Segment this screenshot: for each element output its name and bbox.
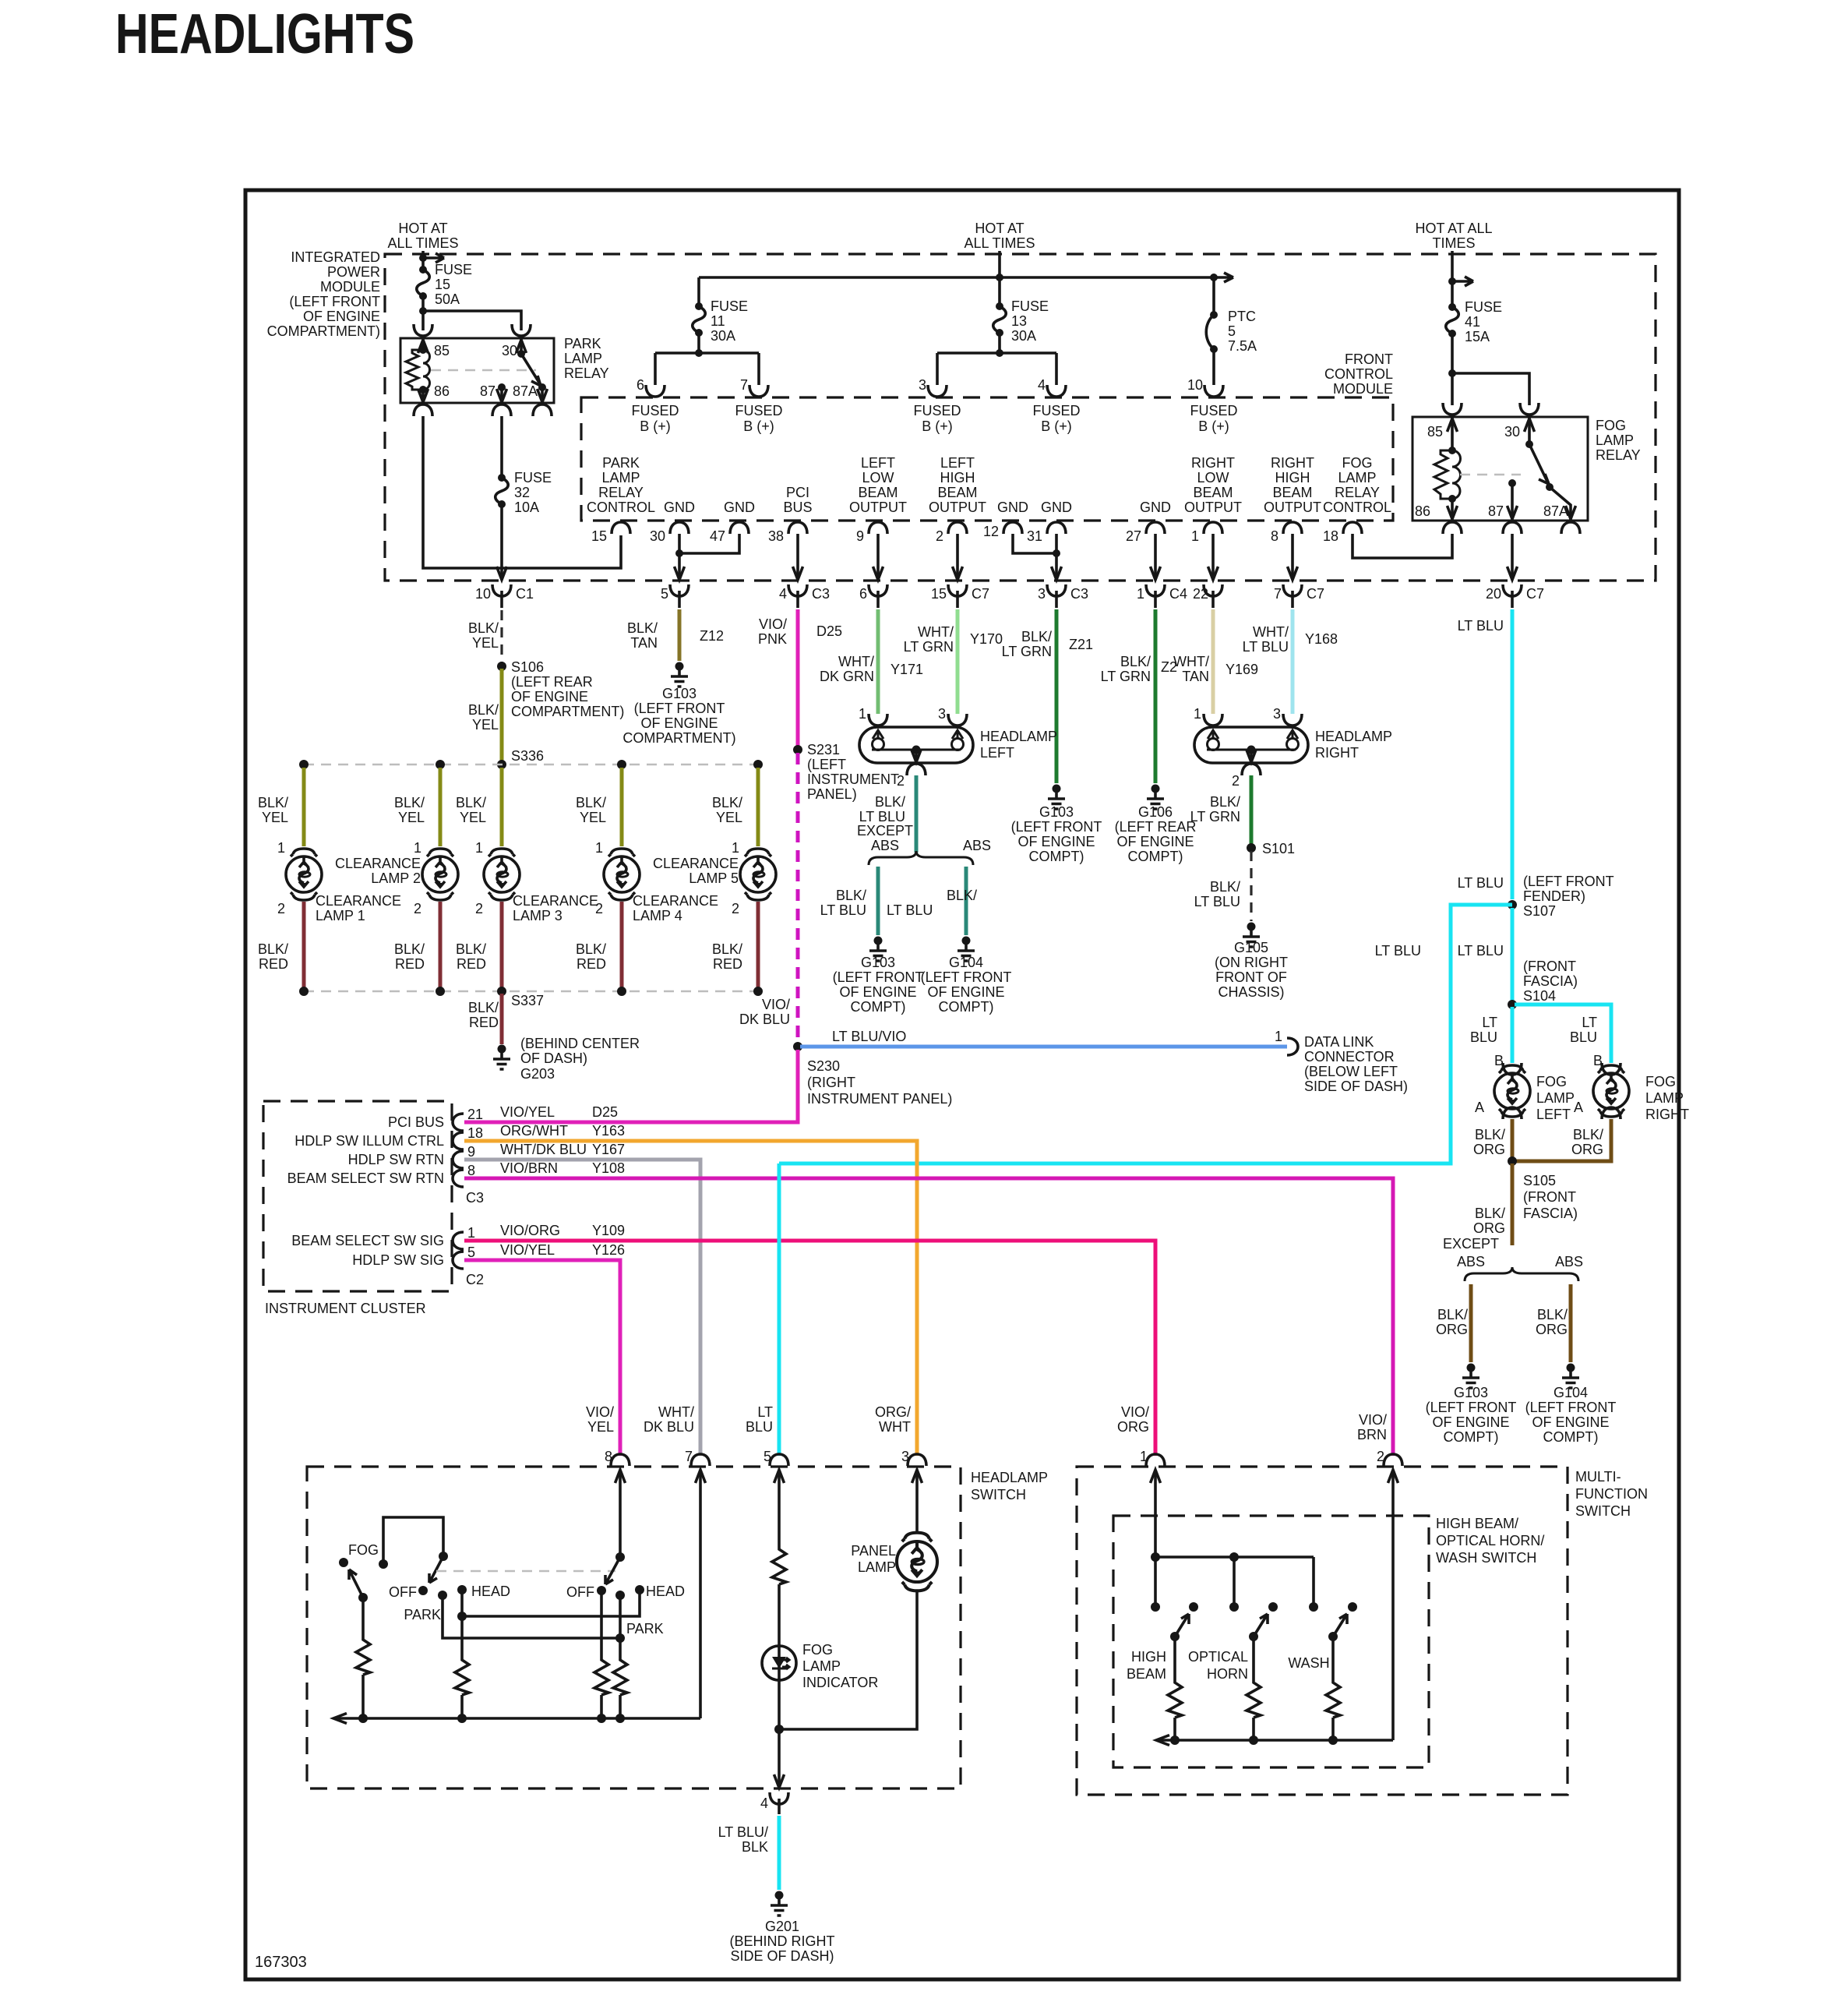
svg-text:FUSED: FUSED [735, 403, 782, 418]
IPM connector C4 pin 1 [1146, 584, 1165, 596]
svg-text:11: 11 [711, 313, 725, 329]
svg-text:Y109: Y109 [592, 1223, 625, 1238]
svg-text:S106: S106 [511, 659, 544, 675]
svg-text:LT BLU: LT BLU [887, 902, 933, 918]
wire BLK/YEL to clearance lamp 5 [756, 768, 760, 846]
FCM pin 30 [670, 522, 689, 534]
IPM connector pin 22 [1204, 584, 1222, 596]
svg-text:VIO/YEL: VIO/YEL [500, 1242, 555, 1258]
wire bus down to fuse11 [697, 277, 700, 305]
svg-text:C4: C4 [1169, 586, 1187, 602]
svg-text:ALL TIMES: ALL TIMES [964, 235, 1035, 251]
park lamp relay box [400, 338, 554, 403]
svg-text:2: 2 [475, 901, 483, 916]
svg-text:1: 1 [595, 840, 603, 856]
svg-text:COMPT): COMPT) [1543, 1429, 1599, 1445]
resistor head branch pole1 [455, 1658, 469, 1695]
svg-text:(ON RIGHT: (ON RIGHT [1215, 955, 1288, 970]
svg-text:BLK/: BLK/ [468, 702, 499, 718]
wire BLK/LT GRN Z21 to ground [1055, 609, 1059, 783]
svg-text:1: 1 [1137, 586, 1144, 602]
wire BLK/RED below clearance lamp 5 [756, 902, 760, 989]
fuse F15 50A [417, 266, 430, 300]
svg-text:PANEL): PANEL) [807, 786, 857, 802]
svg-text:32: 32 [514, 485, 530, 500]
svg-text:5: 5 [661, 586, 668, 602]
svg-text:SIDE OF DASH): SIDE OF DASH) [730, 1948, 834, 1964]
fog lamp left [1494, 1065, 1530, 1117]
svg-text:21: 21 [467, 1107, 483, 1122]
high beam switch [1151, 1602, 1160, 1612]
wire PTC to pin 10 [1212, 352, 1215, 385]
svg-text:DK BLU: DK BLU [739, 1012, 790, 1027]
svg-text:BLK/: BLK/ [456, 941, 486, 957]
svg-text:FUSED: FUSED [1032, 403, 1080, 418]
drawing border frame [245, 190, 1679, 1979]
svg-text:(BEHIND CENTER: (BEHIND CENTER [520, 1036, 640, 1051]
svg-text:HEADLAMP: HEADLAMP [971, 1470, 1048, 1485]
panel lamp resistor wire / lamp [897, 1533, 937, 1591]
svg-text:COMPT): COMPT) [939, 999, 994, 1015]
svg-text:GND: GND [997, 500, 1028, 515]
optical horn switch [1229, 1602, 1239, 1612]
svg-text:5: 5 [1228, 323, 1236, 339]
svg-text:(LEFT FRONT: (LEFT FRONT [289, 294, 380, 309]
FCM pin 6 [646, 385, 665, 397]
svg-text:S231: S231 [807, 742, 840, 757]
svg-text:RED: RED [577, 956, 606, 972]
IPM connector C3 pin 3 [1047, 584, 1066, 596]
ground G104 (fog) [1562, 1364, 1579, 1389]
svg-text:VIO/: VIO/ [762, 997, 790, 1012]
svg-text:COMPARTMENT): COMPARTMENT) [267, 323, 380, 339]
svg-text:(LEFT FRONT: (LEFT FRONT [833, 969, 924, 985]
svg-text:D25: D25 [816, 623, 842, 639]
svg-text:EXCEPT: EXCEPT [1443, 1236, 1499, 1252]
svg-text:S107: S107 [1523, 903, 1556, 919]
svg-text:2: 2 [414, 901, 421, 916]
clearance lamp 2 [422, 849, 458, 900]
wire ORG/WHT to headlamp switch 3 [464, 1141, 917, 1456]
svg-text:G103: G103 [1039, 804, 1074, 820]
svg-text:OF ENGINE: OF ENGINE [303, 309, 380, 324]
svg-text:LAMP 1: LAMP 1 [316, 908, 365, 923]
svg-text:(RIGHT: (RIGHT [807, 1075, 855, 1090]
svg-text:HEADLAMP: HEADLAMP [1315, 729, 1392, 744]
svg-text:C2: C2 [466, 1272, 484, 1287]
svg-text:FUSED: FUSED [631, 403, 679, 418]
svg-text:Z12: Z12 [700, 628, 724, 644]
svg-text:S230: S230 [807, 1058, 840, 1074]
wire BLK/RED below clearance lamp 2 [439, 902, 443, 989]
svg-text:YEL: YEL [472, 635, 499, 651]
svg-text:DATA LINK: DATA LINK [1304, 1034, 1374, 1050]
wire BLK/ORG fog right to S105 [1515, 1119, 1611, 1161]
svg-text:Y170: Y170 [970, 631, 1003, 647]
svg-text:FUNCTION: FUNCTION [1575, 1486, 1648, 1502]
resistor fog branch [361, 1598, 365, 1637]
svg-text:OUTPUT: OUTPUT [1184, 500, 1242, 515]
svg-text:OF ENGINE: OF ENGINE [1116, 834, 1194, 849]
svg-text:BLK/: BLK/ [1573, 1127, 1603, 1142]
svg-text:MODULE: MODULE [320, 279, 380, 295]
svg-text:1: 1 [414, 840, 421, 856]
svg-text:LAMP 2: LAMP 2 [371, 870, 421, 886]
svg-text:ORG: ORG [1117, 1419, 1149, 1435]
clearance lamp 5 [740, 849, 776, 900]
instrument cluster dashed box [263, 1101, 452, 1291]
svg-text:COMPARTMENT): COMPARTMENT) [511, 704, 624, 719]
fog relay pin 86 [1451, 499, 1454, 521]
ground G103 (fog) [1462, 1364, 1479, 1389]
svg-text:ORG: ORG [1473, 1142, 1505, 1157]
svg-text:TIMES: TIMES [1432, 235, 1475, 251]
svg-text:LT BLU: LT BLU [1458, 875, 1504, 891]
wire WHT/TAN to headlamp right 1 [1211, 609, 1215, 714]
svg-text:INSTRUMENT: INSTRUMENT [807, 772, 899, 787]
svg-text:87A: 87A [513, 383, 538, 399]
svg-text:(LEFT REAR: (LEFT REAR [1115, 819, 1197, 835]
svg-text:87: 87 [1488, 503, 1504, 519]
svg-text:PARK: PARK [626, 1621, 664, 1637]
svg-text:OFF: OFF [566, 1584, 594, 1600]
ground G103 (headlamp left) [869, 937, 887, 962]
FCM pin 27 [1146, 522, 1165, 534]
svg-text:WHT/: WHT/ [1253, 624, 1289, 640]
svg-text:OPTICAL: OPTICAL [1188, 1649, 1248, 1665]
svg-text:HEADLAMP: HEADLAMP [980, 729, 1057, 744]
wire LT BLU S104 to fog lamp right [1515, 1005, 1611, 1063]
svg-text:LT BLU: LT BLU [1458, 943, 1504, 959]
FCM pin 12 [1003, 522, 1022, 534]
svg-text:LT BLU: LT BLU [1375, 943, 1421, 959]
svg-text:15: 15 [931, 586, 947, 602]
svg-text:POWER: POWER [327, 264, 380, 280]
svg-text:OF ENGINE: OF ENGINE [927, 984, 1004, 1000]
svg-text:4: 4 [1038, 377, 1046, 393]
svg-text:G106: G106 [1138, 804, 1173, 820]
ground G203 [493, 1045, 510, 1070]
svg-text:LAMP: LAMP [564, 351, 602, 366]
svg-text:BLU: BLU [1570, 1029, 1597, 1045]
svg-text:HIGH: HIGH [1131, 1649, 1166, 1665]
svg-text:YEL: YEL [460, 810, 486, 825]
svg-text:CLEARANCE: CLEARANCE [633, 893, 718, 909]
svg-text:RED: RED [469, 1015, 499, 1030]
relay pin 86 [421, 390, 425, 403]
svg-text:Y169: Y169 [1226, 662, 1258, 677]
wire BLK/YEL to clearance lamp 4 [620, 768, 624, 846]
clearance lamp 3 [484, 849, 520, 900]
svg-text:G103: G103 [861, 955, 895, 970]
svg-text:G201: G201 [765, 1919, 799, 1934]
svg-text:B (+): B (+) [1041, 418, 1072, 434]
svg-text:9: 9 [856, 528, 864, 544]
svg-text:SIDE OF DASH): SIDE OF DASH) [1304, 1079, 1408, 1094]
svg-text:GND: GND [1041, 500, 1072, 515]
mfs return bus [1158, 1739, 1393, 1742]
svg-text:LT GRN: LT GRN [1002, 644, 1052, 659]
svg-text:INDICATOR: INDICATOR [802, 1675, 878, 1690]
svg-text:OF ENGINE: OF ENGINE [1532, 1414, 1609, 1430]
svg-text:S105: S105 [1523, 1173, 1556, 1188]
wire relay86 to FCM pin15 [423, 416, 621, 568]
FCM pin 4 [1047, 385, 1066, 397]
svg-text:Y167: Y167 [592, 1142, 625, 1157]
IPM connector pin 6 [869, 584, 887, 596]
svg-text:LAMP 4: LAMP 4 [633, 908, 682, 923]
svg-text:COMPT): COMPT) [1444, 1429, 1499, 1445]
svg-text:1: 1 [467, 1225, 475, 1241]
head contact pole2 [635, 1585, 644, 1594]
svg-text:OUTPUT: OUTPUT [849, 500, 907, 515]
svg-text:(FRONT: (FRONT [1523, 959, 1576, 974]
wire bus to PTC [1212, 277, 1215, 315]
svg-text:20: 20 [1486, 586, 1501, 602]
fog lamp indicator resistor [772, 1547, 786, 1584]
svg-text:BEAM SELECT SW SIG: BEAM SELECT SW SIG [291, 1233, 444, 1248]
svg-text:YEL: YEL [580, 810, 606, 825]
svg-text:1: 1 [277, 840, 285, 856]
svg-text:87A: 87A [1543, 503, 1568, 519]
FCM pin 2 [948, 522, 967, 534]
wire gnd30 gnd47 join [679, 534, 739, 578]
svg-text:CONTROL: CONTROL [1324, 366, 1393, 382]
svg-text:INSTRUMENT PANEL): INSTRUMENT PANEL) [807, 1091, 952, 1107]
wire fog relay 86 to FCM pin 18 [1352, 534, 1452, 558]
svg-text:BUS: BUS [783, 500, 812, 515]
svg-text:CHASSIS): CHASSIS) [1218, 984, 1284, 1000]
svg-text:B (+): B (+) [640, 418, 671, 434]
svg-text:A: A [1475, 1100, 1484, 1115]
pole1 blade from pivot [429, 1556, 443, 1583]
svg-text:15A: 15A [1465, 329, 1490, 344]
svg-text:OF DASH): OF DASH) [520, 1050, 587, 1066]
svg-text:2: 2 [277, 901, 285, 916]
svg-text:1: 1 [1275, 1029, 1282, 1044]
svg-text:10A: 10A [514, 500, 539, 515]
headlamp right housing [1194, 727, 1308, 763]
wire fuse15 to relay [423, 296, 521, 330]
svg-text:BLK/: BLK/ [1210, 879, 1240, 895]
wire BLK/RED below clearance lamp 4 [620, 902, 624, 989]
fuse F32 10A [496, 474, 509, 508]
wire BLK/LT BLU abs branch [965, 867, 968, 935]
svg-text:RELAY: RELAY [598, 485, 644, 500]
ground G106 [1147, 785, 1164, 810]
svg-text:1: 1 [1194, 706, 1201, 722]
svg-text:ORG: ORG [1436, 1322, 1468, 1337]
fog rotary link [383, 1517, 443, 1562]
svg-text:Y171: Y171 [890, 662, 923, 677]
svg-text:OF ENGINE: OF ENGINE [1432, 1414, 1509, 1430]
svg-text:BLK: BLK [742, 1839, 768, 1855]
connector cups above park lamp relay [414, 324, 432, 336]
fog relay pin 85 [1451, 417, 1454, 450]
svg-text:HDLP SW RTN: HDLP SW RTN [348, 1152, 444, 1167]
svg-text:FRONT OF: FRONT OF [1215, 969, 1287, 985]
svg-text:OUTPUT: OUTPUT [929, 500, 986, 515]
svg-text:8: 8 [1271, 528, 1278, 544]
splice S337 [497, 987, 506, 996]
fog lamp relay box [1412, 417, 1588, 521]
svg-text:SWITCH: SWITCH [1575, 1503, 1631, 1519]
wire VIO/YEL to headlamp switch 8 [464, 1260, 620, 1456]
svg-text:15: 15 [435, 277, 450, 292]
svg-text:RELAY: RELAY [1335, 485, 1380, 500]
svg-text:BLK/: BLK/ [468, 1000, 499, 1015]
wire BLK/YEL S106 to S336 [500, 669, 504, 762]
svg-text:Y108: Y108 [592, 1160, 625, 1176]
IPM connector C1 pin 10 [492, 584, 511, 596]
pole2 pivot [615, 1552, 625, 1562]
PTC 5 7.5A [1210, 311, 1218, 319]
svg-text:C3: C3 [1070, 586, 1088, 602]
wire BLK/ORG abs to G104 [1569, 1284, 1573, 1362]
svg-text:D25: D25 [592, 1104, 618, 1120]
svg-text:BLK/: BLK/ [258, 941, 288, 957]
wire LT BLU down to headlamp switch 5 [778, 1163, 781, 1456]
svg-text:C3: C3 [812, 586, 830, 602]
fuse F41 15A [1446, 303, 1459, 337]
svg-text:CONTROL: CONTROL [1323, 500, 1391, 515]
mechanical link headlamp switch [436, 1570, 615, 1573]
svg-text:DK BLU: DK BLU [644, 1419, 694, 1435]
wire BLK/YEL dashed C1 to S106 [500, 610, 503, 662]
wire WHT/LT GRN to headlamp left 3 [956, 609, 960, 714]
svg-text:15: 15 [591, 528, 607, 544]
splice S106 [497, 662, 506, 671]
wire VIO/DK BLU dashed S231 to S230 [796, 753, 800, 1043]
svg-text:87: 87 [480, 383, 496, 399]
svg-text:LAMP: LAMP [1536, 1090, 1575, 1106]
svg-text:LT GRN: LT GRN [1190, 809, 1240, 824]
svg-text:LEFT: LEFT [980, 745, 1014, 761]
wire led to pin4 [778, 1680, 781, 1786]
fog lamp indicator LED [762, 1646, 796, 1680]
IPM connector C7 pin 15 [948, 584, 967, 596]
wire gnd12 gnd31 join [1013, 534, 1056, 578]
svg-text:(LEFT FRONT: (LEFT FRONT [1523, 874, 1614, 889]
svg-text:G203: G203 [520, 1066, 555, 1082]
wire LT BLU S107 branch left down to headlamp switch [779, 905, 1512, 1163]
IPM connector C3 pin 4 [788, 584, 807, 596]
svg-text:27: 27 [1126, 528, 1141, 544]
svg-text:BLK/: BLK/ [576, 795, 606, 810]
svg-text:30: 30 [502, 343, 517, 358]
svg-text:G104: G104 [1554, 1385, 1588, 1400]
wire BLK/LT GRN headlamp right to S101 [1250, 775, 1254, 845]
svg-text:FASCIA): FASCIA) [1523, 1206, 1578, 1221]
ground G103 (Z12) [671, 662, 688, 687]
svg-text:LOW: LOW [862, 470, 894, 486]
svg-text:A: A [1574, 1100, 1583, 1115]
wire LT BLU from fog relay 87 down [1511, 609, 1515, 899]
svg-text:LOW: LOW [1197, 470, 1229, 486]
svg-text:30: 30 [1504, 424, 1520, 440]
wire VIO/PNK C3-4 to S231 [796, 609, 800, 747]
svg-text:HEAD: HEAD [646, 1584, 685, 1599]
FCM pin 3 [928, 385, 947, 397]
wire BLK/RED below clearance lamp 1 [302, 902, 306, 989]
headlamp left pin 2 connector [907, 764, 926, 775]
svg-text:30A: 30A [711, 328, 735, 344]
svg-text:C7: C7 [1307, 586, 1324, 602]
svg-text:WHT: WHT [879, 1419, 911, 1435]
svg-text:18: 18 [1323, 528, 1338, 544]
svg-text:S337: S337 [511, 993, 544, 1008]
svg-text:OF ENGINE: OF ENGINE [640, 715, 718, 731]
multi-function switch dashed box [1077, 1467, 1568, 1795]
wire WHT/DK BLU to headlamp switch 7 [464, 1160, 700, 1456]
svg-text:Y168: Y168 [1305, 631, 1338, 647]
wire relay87 to fuse32 [500, 416, 503, 477]
wire LT BLU/VIO S230 to data link connector [800, 1045, 1287, 1049]
svg-text:10: 10 [1187, 377, 1203, 393]
svg-text:LT BLU/VIO: LT BLU/VIO [832, 1029, 906, 1044]
svg-text:5: 5 [467, 1245, 475, 1260]
svg-text:VIO/BRN: VIO/BRN [500, 1160, 558, 1176]
svg-text:FUSE: FUSE [435, 262, 472, 277]
svg-text:PARK: PARK [602, 455, 640, 471]
svg-text:COMPARTMENT): COMPARTMENT) [622, 730, 735, 746]
svg-text:S336: S336 [511, 748, 544, 764]
svg-text:BLK/: BLK/ [1021, 629, 1052, 644]
svg-text:WHT/: WHT/ [838, 654, 874, 669]
svg-text:FOG: FOG [1342, 455, 1373, 471]
svg-text:LAMP: LAMP [601, 470, 640, 486]
svg-text:6: 6 [859, 586, 867, 602]
svg-text:BLK/: BLK/ [456, 795, 486, 810]
svg-text:TAN: TAN [1182, 669, 1209, 684]
svg-text:CONTROL: CONTROL [587, 500, 655, 515]
wire BLK/ORG S105 down [1511, 1163, 1515, 1245]
svg-text:VIO/: VIO/ [1121, 1404, 1149, 1420]
integrated power module dashed box [385, 254, 1656, 581]
wire BLK/RED below clearance lamp 3 [500, 902, 504, 989]
svg-text:2: 2 [897, 773, 905, 789]
svg-text:WHT/: WHT/ [918, 624, 954, 640]
svg-text:PTC: PTC [1228, 309, 1256, 324]
relay coil (resistor + inductor) [419, 346, 427, 354]
svg-text:2: 2 [732, 901, 739, 916]
fog relay pin 87 stub [1508, 479, 1516, 487]
svg-text:BLK/: BLK/ [1120, 654, 1151, 669]
headlamp left pin 1 connector [869, 714, 887, 726]
mfs feed bus [1155, 1557, 1314, 1607]
wire LT BLU/BLK to G201 [778, 1816, 781, 1890]
svg-text:RIGHT: RIGHT [1271, 455, 1314, 471]
svg-text:C1: C1 [516, 586, 534, 602]
svg-text:BEAM: BEAM [1127, 1666, 1166, 1682]
svg-text:COMPT): COMPT) [851, 999, 906, 1015]
svg-text:GND: GND [724, 500, 755, 515]
svg-text:BLK/: BLK/ [1210, 794, 1240, 810]
svg-text:FUSE: FUSE [711, 298, 748, 314]
svg-text:YEL: YEL [716, 810, 742, 825]
wire VIO/YEL pci bus to S230 [464, 1050, 798, 1122]
svg-text:1: 1 [475, 840, 483, 856]
svg-text:OF ENGINE: OF ENGINE [1017, 834, 1095, 849]
svg-text:G103: G103 [662, 686, 697, 701]
svg-text:Y126: Y126 [592, 1242, 625, 1258]
svg-text:ABS: ABS [871, 838, 899, 853]
FCM pin 15 [612, 522, 630, 534]
svg-text:CONNECTOR: CONNECTOR [1304, 1049, 1395, 1065]
wire fuse13 split to pins 3 and 4 [937, 333, 1056, 385]
svg-text:Z21: Z21 [1069, 637, 1093, 652]
svg-text:BLK/: BLK/ [627, 620, 658, 636]
